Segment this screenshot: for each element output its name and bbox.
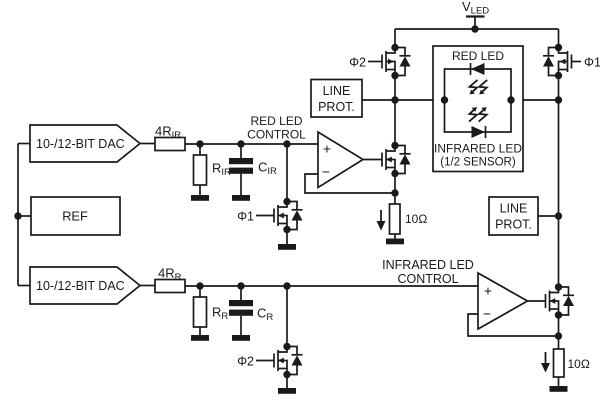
current arrow right [545,352,547,364]
svg-text:−: − [483,306,491,322]
node rowR-2 [237,140,244,147]
svg-text:Φ1: Φ1 [237,210,254,224]
wire VLED rail [395,28,559,30]
svg-text:CONTROL: CONTROL [397,272,458,286]
node led loop left [441,96,448,103]
diode D1 red led [470,63,472,75]
DAC U1 10-/12-BIT DAC [30,125,140,162]
wire node to Q2 drain [286,286,288,347]
svg-text:10-/12-BIT DAC: 10-/12-BIT DAC [36,279,125,293]
svg-text:4RR: 4RR [158,266,182,284]
svg-text:(1/2 SENSOR): (1/2 SENSOR) [440,157,516,169]
wire led row right [511,99,559,101]
svg-text:REF: REF [62,209,88,224]
svg-text:+: + [323,141,331,157]
diode D2 infrared led [472,126,486,138]
LED loop inner rect [445,69,512,132]
wire DAC2 input stub [18,285,30,287]
svg-text:PROT.: PROT. [495,218,532,232]
transistor Q6 nmos driver [546,283,575,318]
transistor Q5 nmos driver [382,142,411,177]
svg-text:CR: CR [257,306,273,324]
wire Q2 gate [256,360,274,362]
wire node row infrared [185,285,478,287]
transistor Q4 phi1 pmos mirrored [543,44,572,79]
svg-text:LINE: LINE [500,202,528,216]
svg-text:+: + [484,283,492,299]
wire Q4 source down right column [558,76,560,288]
op-amp U3 [318,132,363,188]
node feedback2 [555,332,562,339]
node VLED rail [471,25,478,32]
transistor Q3 phi2 pmos [382,44,411,79]
svg-text:RIR: RIR [212,161,231,179]
resistor RIR [199,144,201,155]
resistor 10ohm left [390,204,401,234]
node lineprot2 tap [555,212,562,219]
resistor 10ohm right [554,349,565,377]
wire left column vertical [17,144,19,286]
svg-text:RR: RR [212,305,228,323]
wire node to Q1 drain [286,144,288,202]
capacitor CIR [240,144,242,158]
svg-text:RED LED: RED LED [452,49,504,63]
svg-text:10Ω: 10Ω [568,357,590,371]
ground 10ohm left [386,239,404,245]
wire Q1 source to ground [286,230,288,245]
transistor Q1 phi1 nmos [274,198,303,233]
current arrow left [380,210,382,222]
node rowIR-2 [237,282,244,289]
wire Q1 gate [256,215,274,217]
svg-text:CONTROL: CONTROL [247,128,306,142]
wire rail to Q3 [394,29,396,48]
emission arrows infrared led [469,107,477,122]
wire Q6 source down [558,315,560,349]
resistor 4RR [155,280,185,293]
wire U3 output to Q5 gate [363,159,382,161]
emission arrows red led [470,80,478,95]
svg-text:−: − [322,164,330,180]
wire lineprot1 to column [362,99,395,101]
wire DAC1 input stub [18,143,30,145]
node rowR-3 [283,140,290,147]
svg-text:Φ2: Φ2 [349,56,366,70]
svg-text:4RIR: 4RIR [155,124,181,142]
wire DAC2 to 4RR [140,285,155,287]
svg-text:10Ω: 10Ω [405,212,427,226]
LINE PROT box 1 [311,80,362,118]
ground Q1 [278,244,296,250]
ground CR [232,335,250,341]
node Q3-lineprot [391,96,398,103]
wire Q4 gate [572,61,582,63]
ground CIR [232,195,250,201]
node feedback1 [391,189,398,196]
wire led row left [395,99,445,101]
DAC U2 10-/12-BIT DAC [30,267,140,304]
svg-text:Φ1: Φ1 [584,56,600,70]
node Q4-led row [555,96,562,103]
wire Q3 gate [368,61,382,63]
resistor RR [199,286,201,297]
svg-text:INFRARED LED: INFRARED LED [382,258,474,272]
node rowR-1 [196,140,203,147]
wire rail to Q4 [558,29,560,48]
node REF tap [14,212,21,219]
node rowIR-1 [196,282,203,289]
wire REF input stub [18,215,31,217]
wire U4 feedback [468,314,559,336]
REF box [31,197,120,235]
capacitor CR [240,286,242,300]
node rowIR-3 [283,282,290,289]
wire U4 output to Q6 gate [528,300,546,302]
op-amp U4 [478,273,528,329]
resistor 4RIR [155,138,185,151]
ground Q2 [278,388,296,394]
LINE PROT box 2 [489,197,538,235]
svg-text:10-/12-BIT DAC: 10-/12-BIT DAC [36,137,125,151]
wire node row red [185,143,318,145]
svg-text:INFRARED LED: INFRARED LED [434,142,522,156]
svg-text:Φ2: Φ2 [237,355,254,369]
ground RR [191,335,209,341]
node led loop right [507,96,514,103]
svg-text:PROT.: PROT. [318,100,355,114]
svg-text:LINE: LINE [323,84,351,98]
RED LED outer box [433,46,523,172]
svg-text:CIR: CIR [258,160,277,178]
wire Q5 source down [394,174,396,205]
wire U3 feedback [305,174,395,193]
ground RIR [191,195,209,201]
svg-text:RED LED: RED LED [250,114,302,128]
wire Q3 source down [394,76,396,146]
wire Q2 source to ground [286,375,288,389]
ground 10ohm right [550,386,568,392]
wire DAC1 to 4RIR [140,143,155,145]
wire lineprot2 to column [538,215,559,217]
transistor Q2 phi2 nmos [274,343,303,378]
svg-text:VLED: VLED [462,0,489,17]
